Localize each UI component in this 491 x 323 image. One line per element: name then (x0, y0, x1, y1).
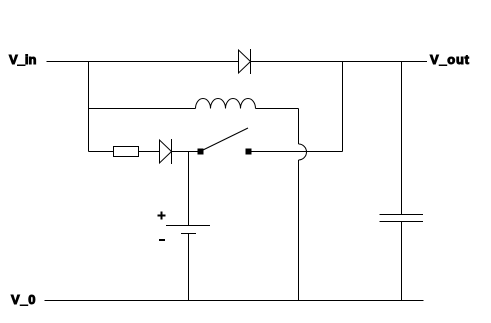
battery BT1 positive plate (166, 225, 210, 227)
wire capacitor branch upper (top rail to capacitor) (401, 62, 403, 215)
battery BT1 plus label (158, 212, 166, 220)
svg-text:V_0: V_0 (11, 292, 36, 307)
wire hop (crossover, no connection) (299, 144, 307, 160)
wire top rail right (diode cathode to V_out) (251, 61, 428, 63)
wire diode D2 to switch left terminal (172, 151, 199, 153)
wire switch right terminal to right vertical (251, 151, 343, 153)
wire inductor rail right segment (256, 108, 299, 110)
wire vertical at x=298.5 lower (hop to bottom rail) (298, 160, 300, 301)
wire resistor to diode D2 (139, 151, 160, 153)
wire right vertical from top rail to switch rail (342, 62, 344, 152)
switch SW1 right terminal node (246, 149, 251, 154)
switch SW1 left terminal node (198, 149, 203, 154)
capacitor C1 top plate (380, 214, 424, 216)
wire battery branch lower (battery - to bottom rail) (188, 234, 190, 301)
wire switch rail stub to resistor (89, 151, 114, 153)
resistor R1 (114, 147, 139, 157)
battery BT1 minus label (159, 239, 165, 241)
wire top rail left (V_in to diode anode) (47, 61, 239, 63)
diode D1 (top, anode left / cathode bar right) (239, 49, 251, 74)
wire capacitor branch lower (capacitor to bottom rail) (401, 222, 403, 301)
inductor L1 (4 humps) (196, 99, 256, 109)
wire bottom rail V_0 (45, 300, 424, 302)
wire battery branch upper (switch rail to battery +) (188, 152, 190, 226)
capacitor C1 bottom plate (380, 221, 424, 223)
svg-text:V_in: V_in (9, 52, 37, 67)
wire vertical at x=298.5 upper (inductor to hop) (298, 109, 300, 145)
switch SW1 blade (open) (203, 128, 248, 150)
battery BT1 negative plate (181, 233, 196, 235)
wire inductor rail left segment (89, 108, 196, 110)
svg-text:V_out: V_out (430, 52, 470, 67)
diode D2 (lower, anode left / cathode bar right) (160, 139, 172, 164)
wire left vertical from top rail down to switch rail (88, 62, 90, 152)
